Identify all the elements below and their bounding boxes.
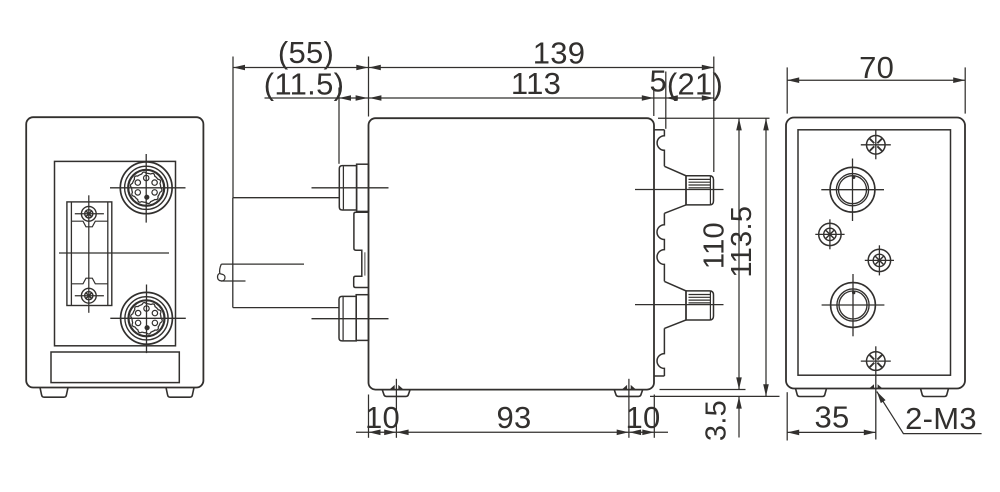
front view: left plug 2 cap inner edge — [342, 297, 344, 340]
svg-text:5: 5 — [650, 63, 668, 98]
left view: plate screw top — [81, 206, 96, 221]
front view: right connector 1 (trapezoid + knurled nut) — [664, 166, 686, 213]
leader 2-M3 — [877, 392, 982, 434]
right view: left foot — [796, 389, 827, 397]
dim 113.5 arrows — [763, 118, 769, 130]
left view: recessed front panel — [55, 161, 176, 345]
front view: left plug 1 centerline — [312, 187, 389, 189]
dim row2 arrows — [339, 95, 351, 101]
ext line y=118 right — [658, 117, 770, 119]
left view: keyhole notch bottom — [71, 278, 107, 284]
dim 110 arrows — [736, 118, 742, 130]
left view: panel horizontal centerline — [59, 252, 169, 254]
front view: left plug 1 cap — [339, 166, 356, 210]
ext line x=339 — [338, 88, 340, 164]
right view: small screw left crosshair — [815, 233, 844, 235]
front view: left plug 1 cap inner edge — [342, 166, 344, 209]
right view: M3 screw bottom — [867, 352, 886, 371]
left view: mounting slot plate — [67, 202, 112, 306]
front view: flange bottom step — [654, 375, 664, 377]
svg-text:2-M3: 2-M3 — [905, 401, 977, 436]
front view: DIN bracket tab edge — [364, 252, 366, 275]
right view: small screw right — [868, 249, 890, 271]
ext line x=665.8 — [665, 72, 667, 129]
svg-text:113: 113 — [511, 66, 561, 101]
front view: left plug 2 body — [356, 295, 368, 341]
ext line x=653.8 top — [653, 89, 655, 116]
dim row1 arrows — [233, 65, 245, 71]
front view: left plug 2 cap — [339, 296, 356, 341]
right view: small screw left — [819, 223, 841, 245]
front view: cable bottom edge — [233, 307, 339, 309]
dim bottom line 10+93+10 — [356, 431, 668, 433]
dim 3.5 arrow — [736, 397, 742, 409]
right view: connector boss bottom — [831, 283, 876, 328]
svg-text:70: 70 — [859, 50, 894, 85]
left view: left foot — [40, 388, 68, 398]
front view: left foot screw mark — [390, 385, 404, 389]
left view: screw tick bottom — [75, 295, 104, 297]
dim 70 arrows — [787, 77, 799, 83]
right view: recessed face panel — [798, 130, 951, 375]
front view: main body outline — [369, 118, 655, 389]
dim row2 line (11.5)+113+5+(21) — [265, 97, 714, 99]
dim row1 line (55)+139 — [233, 67, 714, 69]
right view: M3 screw bottom crosshair — [861, 360, 891, 362]
svg-text:3.5: 3.5 — [701, 400, 733, 441]
front view: right foot — [614, 390, 643, 397]
ext line x=233 — [232, 57, 234, 198]
right view: right foot — [921, 389, 949, 397]
ext line x=396.4 foot — [395, 379, 397, 438]
left view: plate vertical centerline — [88, 195, 90, 312]
right view: bottom screw mark — [869, 384, 883, 388]
front view: DIN rail bracket — [354, 212, 369, 287]
front view: cable middle edge B — [221, 280, 246, 282]
svg-text:(55): (55) — [278, 35, 334, 70]
front view: right connector 1 centerline — [635, 189, 724, 191]
dim 3.5 lower arrow line — [738, 397, 740, 438]
front view: cable left edge — [232, 198, 234, 308]
right view: small screw right crosshair — [865, 259, 894, 261]
left view: slot plate inner edges — [70, 203, 72, 306]
right view: unit body outline — [786, 118, 965, 389]
svg-text:10: 10 — [365, 400, 400, 435]
ext line x=628.9 foot — [628, 379, 630, 438]
left view: circular connector top — [120, 162, 172, 214]
ext line x=965.2 top — [964, 67, 966, 113]
right view: connector boss top crosshair — [821, 189, 884, 191]
ext line x=368.5 top — [368, 57, 370, 117]
ext line y=389.5 right — [660, 389, 746, 391]
svg-text:10: 10 — [625, 400, 660, 435]
right view: M3 screw top — [867, 136, 886, 155]
front view: left plug 1 body — [357, 164, 369, 211]
left view: circular connector bottom — [121, 292, 173, 344]
left view: plate screw bottom — [81, 288, 96, 303]
left view: unit body outline — [26, 117, 203, 387]
right view: M3 screw top crosshair — [861, 144, 891, 146]
dim 110 line — [738, 118, 740, 389]
front view: left plug 2 centerline — [312, 318, 389, 320]
front view: right connector 2 centerline — [635, 304, 724, 306]
left view: label plate — [51, 352, 179, 383]
front view: right connector 2 (trapezoid + knurled nut) — [664, 281, 686, 328]
svg-text:(21): (21) — [667, 67, 723, 102]
svg-text:113.5: 113.5 — [726, 206, 758, 278]
left view: keyhole notch top — [71, 221, 107, 227]
dim 35 line — [787, 431, 876, 433]
front view: flange top step — [654, 129, 664, 131]
right view: connector boss top — [830, 167, 875, 212]
ext line x=654.3 bottom — [653, 395, 655, 438]
svg-text:35: 35 — [814, 400, 849, 435]
svg-text:(11.5): (11.5) — [264, 67, 344, 102]
front view: cable top edge — [233, 197, 339, 199]
ext line y=396.4 right — [650, 395, 780, 397]
ext line x=713.8 — [713, 57, 715, 173]
front view: left foot — [382, 390, 410, 397]
front view: cable middle edge A — [221, 263, 304, 265]
dim 35 arrows — [787, 430, 799, 436]
svg-text:93: 93 — [496, 400, 531, 435]
dim 113.5 line — [765, 118, 767, 396]
ext line x=787.2 bottom — [786, 392, 788, 440]
left view: right foot — [166, 388, 194, 398]
dim 70 line — [787, 79, 965, 81]
left view: screw tick top — [75, 213, 104, 215]
ext line x=368.5 bottom — [368, 395, 370, 438]
front view: right foot screw mark — [622, 385, 636, 389]
dim bottom arrows — [369, 430, 381, 436]
ext line x=787.2 top — [786, 67, 788, 113]
right view: connector boss bottom crosshair — [822, 304, 885, 306]
front view: flange edge with bumps — [657, 130, 664, 376]
front view: cable break squiggle — [218, 264, 225, 281]
